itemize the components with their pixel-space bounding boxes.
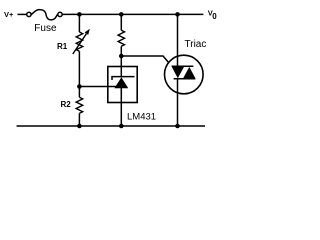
wire triac MT1 to bottom rail [177,79,179,126]
triac right triangle [183,67,195,78]
wire top-A to R1 [78,14,80,32]
resistor R1 (variable) [76,32,83,51]
wire top-B to R3 [120,14,122,30]
junction top-B [119,12,124,17]
svg-text:R1: R1 [57,42,68,51]
junction node D [77,84,82,89]
wire R2 to bottom rail [78,113,80,126]
fuse F1 [27,10,63,20]
wire node D to R2 [78,87,80,98]
junction top-A [77,12,82,17]
wire V+ to fuse [18,13,27,15]
resistor R2 [76,97,83,113]
svg-text:Triac: Triac [185,39,207,50]
junction bottom-A [77,124,82,129]
triac Q1 circle [165,55,204,94]
LM431 anode lead [120,88,122,103]
wire LM431 anode to bottom rail [120,103,122,127]
junction node E [119,54,124,59]
wire R1 to node D [78,51,80,86]
LM431 zener triangle [114,77,128,88]
svg-text:LM431: LM431 [127,111,156,122]
R1 wiper arrow [73,34,87,54]
wire node D to LM431 ref [79,86,116,88]
svg-text:V+: V+ [4,10,14,19]
svg-text:Fuse: Fuse [34,23,57,34]
triac left triangle [172,67,184,78]
resistor R3 (unlabeled) [118,30,124,46]
bottom rail wire [17,125,206,127]
op-amp U1 LM431 box [108,67,137,103]
LM431 cathode bar [112,77,135,80]
svg-text:R2: R2 [61,100,72,109]
junction bottom-C [175,124,180,129]
wire fuse to V0 (top rail) [62,13,203,15]
triac MT2 bar [172,65,194,67]
triac MT1 bar [174,78,196,80]
junction bottom-B [119,124,124,129]
gate wire node E to triac [121,56,168,63]
wire top-C to triac MT2 [177,14,179,66]
junction top-C [175,12,180,17]
LM431 cathode lead [120,67,122,78]
svg-text:0: 0 [212,12,217,21]
wire R3 to node E [120,46,122,66]
